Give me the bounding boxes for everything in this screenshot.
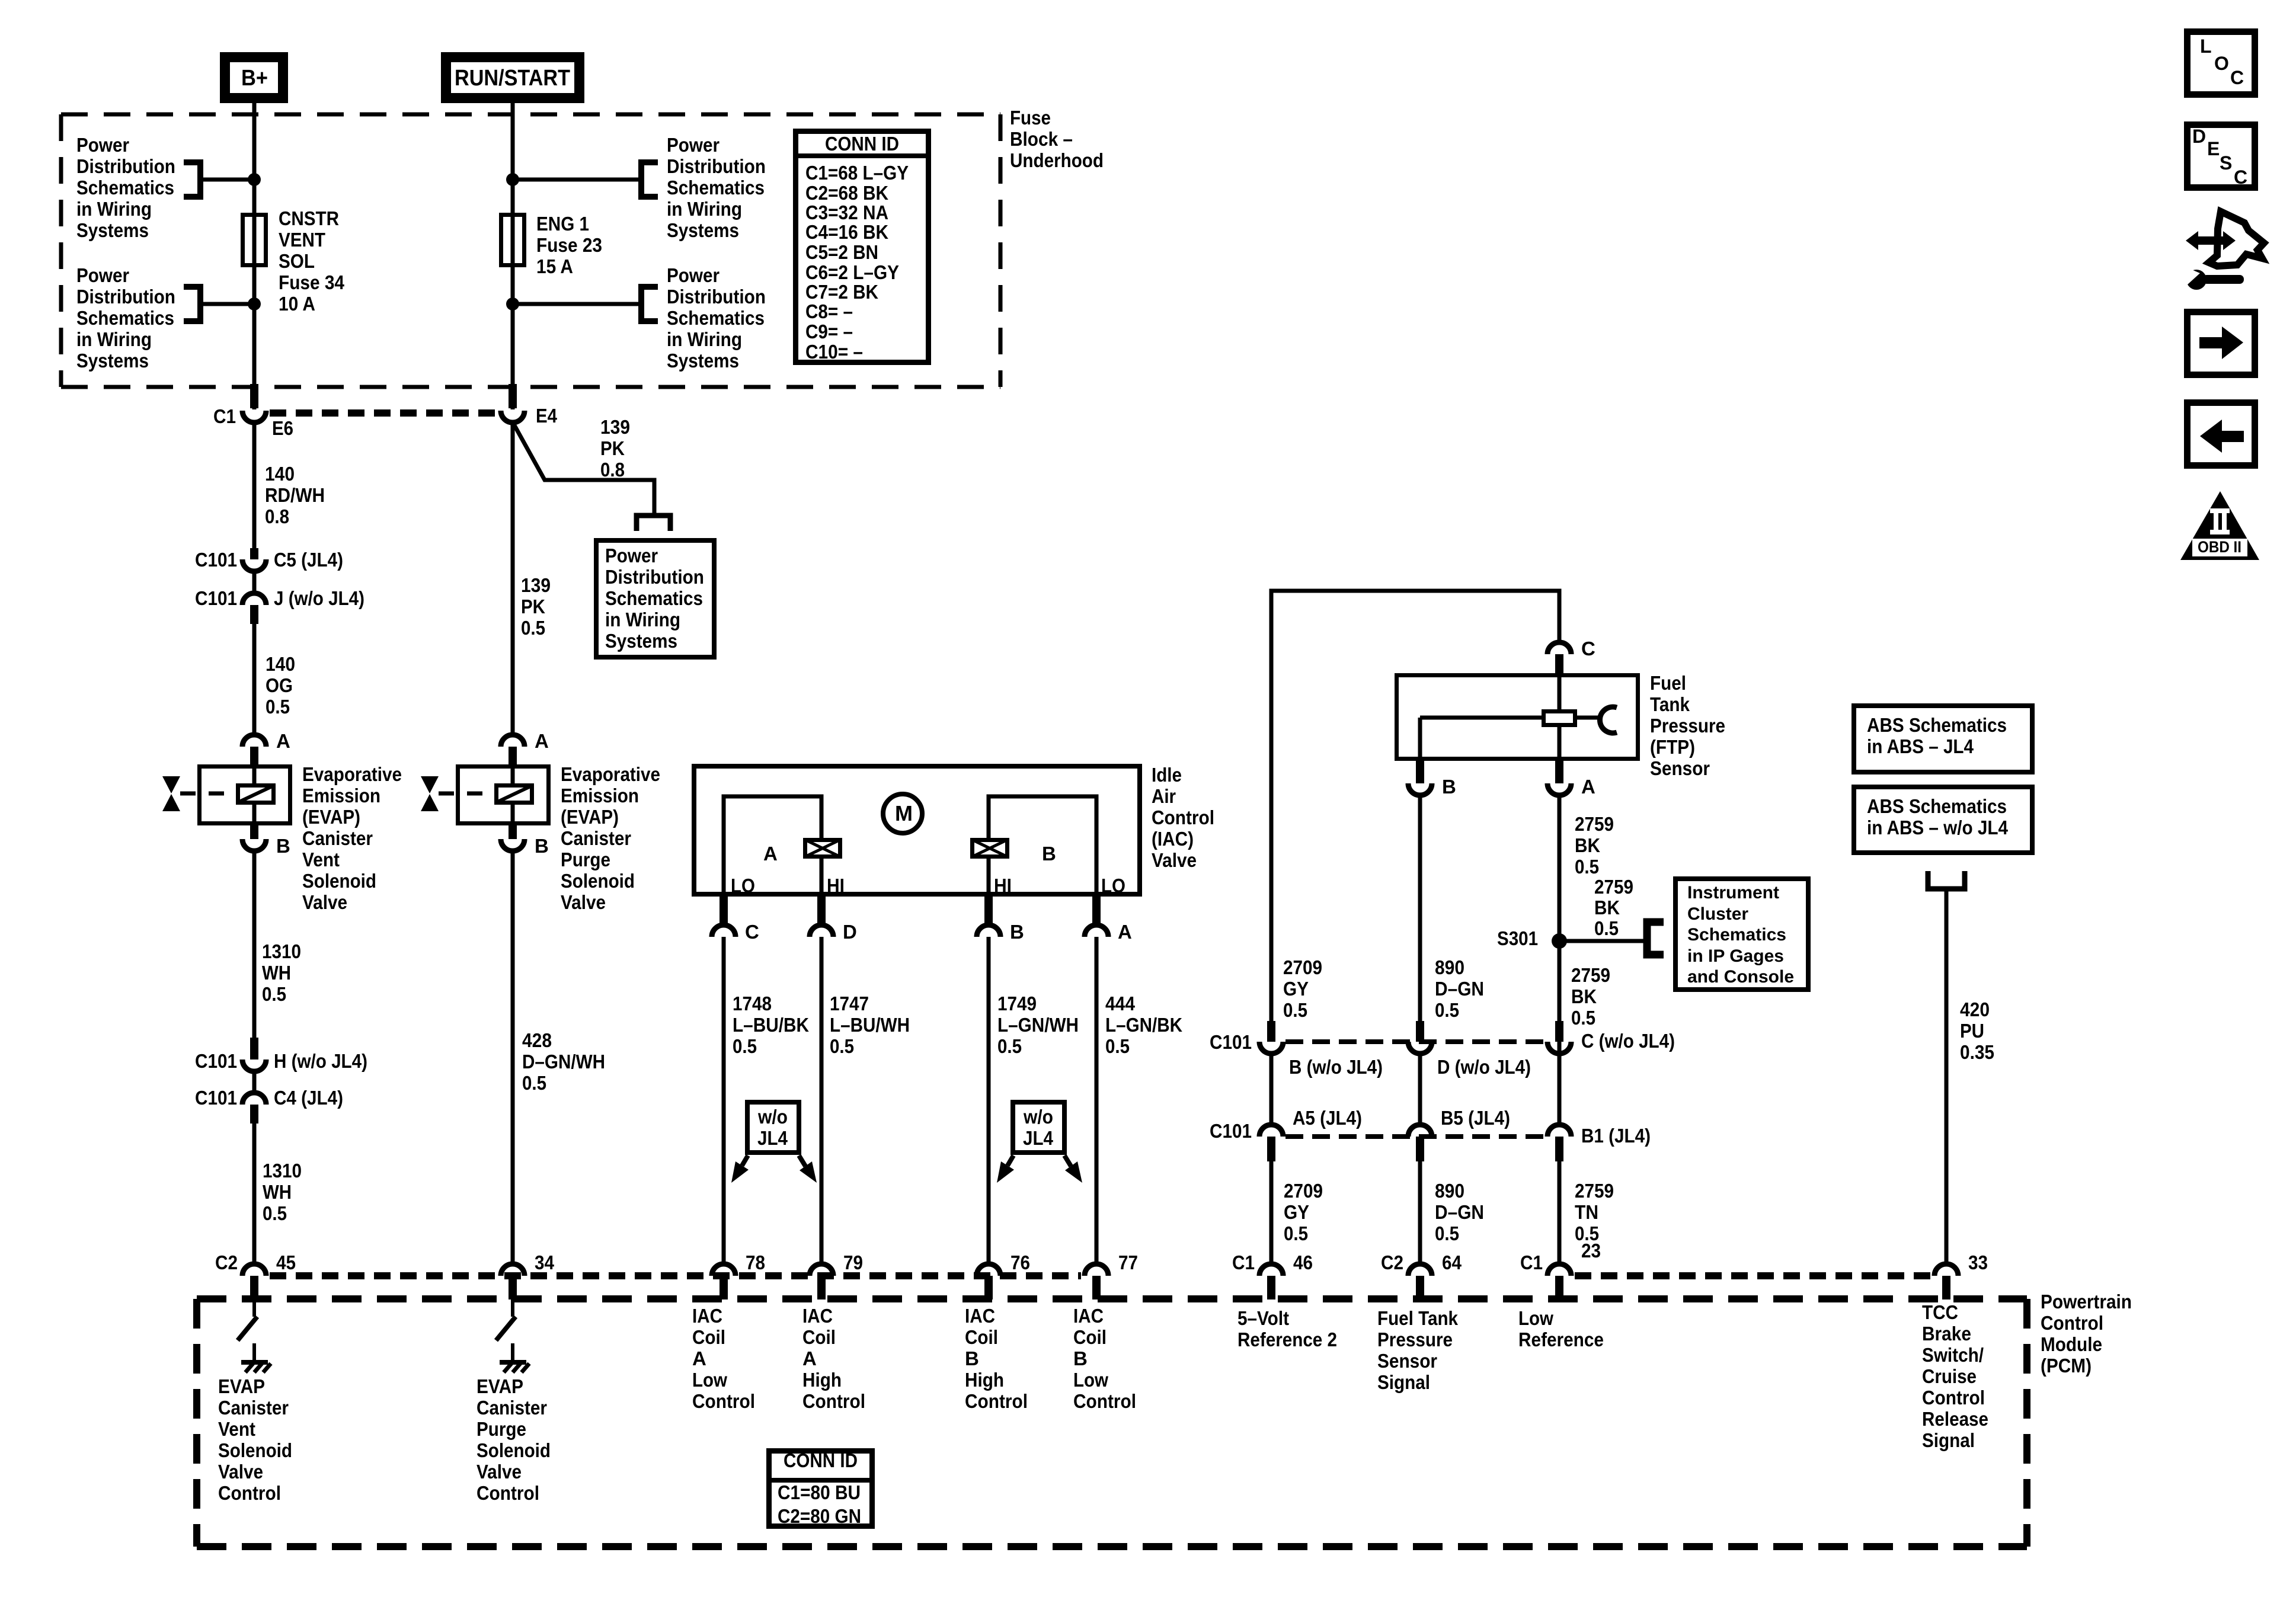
fuse block underhood dashed box [61,114,1000,387]
wire C101 to PCM at x=2631 [1558,1161,1562,1263]
wire branch to lower-left bracket [203,302,254,306]
svg-text:C6=2 L–GY: C6=2 L–GY [805,261,899,283]
svg-text:890: 890 [1435,1180,1464,1202]
svg-text:1748: 1748 [733,993,772,1014]
svg-text:Vent: Vent [302,849,340,870]
svg-text:0.5: 0.5 [521,617,545,639]
label 2709 GY 0.5 lower [1284,1180,1323,1244]
svg-text:78: 78 [746,1251,765,1273]
wire IAC pin C to PCM [722,937,726,1263]
label 1748 L-BU/BK 0.5 [733,993,809,1057]
svg-text:JL4: JL4 [1023,1127,1054,1149]
svg-text:L–BU/BK: L–BU/BK [733,1014,809,1036]
wire S301 to instrument cluster [1559,939,1647,943]
PCM pin 79 [810,1264,833,1299]
label EVAP Canister Purge Solenoid Valve Control [477,1375,551,1504]
connector C101 pin C4 [242,1093,266,1124]
CONN ID table PCM [766,1449,875,1527]
wire 139 PK 0.8 branch [514,424,654,513]
label IAC Coil B Low Control [1073,1305,1136,1412]
connector C101 pin C5 [242,548,266,571]
svg-text:Coil: Coil [1073,1326,1107,1348]
svg-text:B: B [535,835,549,857]
svg-text:Signal: Signal [1377,1371,1430,1393]
svg-text:Valve: Valve [1152,849,1197,871]
label 2759 BK 0.5 branch [1594,876,1633,939]
PCM connector dashed line right [1575,1272,1931,1279]
svg-text:C: C [2230,67,2244,88]
wire IAC pin A to PCM [1095,937,1099,1263]
svg-text:O: O [2214,53,2229,74]
label IAC Coil B High Control [965,1305,1028,1412]
wire through solenoid [252,764,257,783]
label 420 PU 0.35 [1960,998,1994,1063]
svg-text:B (w/o JL4): B (w/o JL4) [1289,1056,1383,1078]
label 1310 WH 0.5 upper [262,940,301,1005]
PCM connector dashed line left [270,1272,1081,1279]
svg-text:Schematics: Schematics [667,177,765,199]
junction dot wire1 lower [248,297,261,311]
svg-text:L: L [2200,36,2212,57]
svg-text:E: E [2207,138,2220,159]
FTP sensor pin C [1547,642,1571,673]
wire between C101 halves [252,571,257,593]
svg-text:Power: Power [76,134,129,156]
label 140 RD/WH 0.8 [265,463,325,527]
arrow w/o JL4 to wire C [731,1156,749,1183]
svg-text:GY: GY [1283,978,1309,1000]
svg-text:C (w/o JL4): C (w/o JL4) [1581,1030,1675,1052]
svg-text:C: C [745,921,759,943]
svg-text:Air: Air [1152,785,1176,807]
svg-text:WH: WH [262,962,291,984]
svg-text:C2=68 BK: C2=68 BK [805,182,888,204]
svg-text:A: A [692,1347,706,1369]
CONN ID table fuse block [793,132,931,363]
svg-text:L–GN/WH: L–GN/WH [997,1014,1079,1036]
svg-text:Fuse: Fuse [1010,107,1051,129]
svg-text:IAC: IAC [1073,1305,1104,1327]
svg-text:Control: Control [1152,806,1214,828]
connector C101 upper pin at x=2631 [1547,1021,1571,1054]
svg-text:Evaporative: Evaporative [302,763,402,785]
svg-text:A5 (JL4): A5 (JL4) [1293,1107,1362,1129]
svg-text:CONN ID: CONN ID [825,133,899,155]
svg-text:B: B [1073,1347,1088,1369]
svg-text:0.5: 0.5 [1571,1007,1595,1029]
svg-text:L–GN/BK: L–GN/BK [1105,1014,1182,1036]
svg-text:0.5: 0.5 [266,696,290,718]
FTP sensor internals [1420,673,1617,761]
svg-text:C5 (JL4): C5 (JL4) [274,549,343,571]
svg-text:0.5: 0.5 [1284,1222,1308,1244]
svg-text:Evaporative: Evaporative [561,763,660,785]
connector C101 upper pin at x=2396 [1408,1021,1432,1054]
svg-text:OG: OG [266,674,293,696]
wire 1310 WH upper segment [252,851,257,1042]
driver switch EVAP vent control [238,1299,271,1372]
svg-text:0.5: 0.5 [1435,1222,1459,1244]
svg-text:High: High [802,1369,842,1391]
svg-text:OBD II: OBD II [2198,538,2241,556]
connector pin B Purge [501,825,525,851]
connector pin A Vent [242,735,266,764]
svg-text:M: M [895,801,913,825]
svg-text:Schematics: Schematics [1687,925,1786,945]
svg-text:EVAP: EVAP [218,1375,265,1397]
connector C1 pin E6 [242,384,266,422]
svg-text:1310: 1310 [263,1160,302,1182]
wire coil B to HI pin [987,859,991,897]
svg-text:Pressure: Pressure [1377,1329,1453,1350]
svg-text:CNSTR: CNSTR [279,207,339,229]
svg-text:Schematics: Schematics [667,307,765,329]
svg-text:C7=2 BK: C7=2 BK [805,281,878,303]
svg-text:L–BU/WH: L–BU/WH [830,1014,910,1036]
label 139 PK 0.5 [521,574,551,639]
svg-text:J (w/o JL4): J (w/o JL4) [274,587,364,609]
arrow w/o JL4 to wire B [997,1156,1014,1183]
svg-text:A: A [535,730,549,752]
svg-text:Control: Control [802,1390,865,1412]
label 1747 L-BU/WH 0.5 [830,993,910,1057]
wire 140 OG segment [252,624,257,735]
svg-text:1310: 1310 [262,940,301,962]
svg-text:ABS Schematics: ABS Schematics [1867,795,2007,817]
svg-text:5–Volt: 5–Volt [1237,1307,1289,1329]
label power distribution schematics box [605,545,704,652]
svg-text:2759: 2759 [1571,964,1610,986]
svg-text:79: 79 [843,1251,863,1273]
wire 139 PK segment [511,422,515,735]
svg-text:Underhood: Underhood [1010,149,1104,171]
label Low Reference [1518,1307,1604,1350]
wire branch to lower-right bracket [513,302,641,306]
label Evaporative Emission (EVAP) Canister Purge Solenoid Valve [561,763,660,913]
fuse F23 ENG 1 [501,215,525,265]
svg-text:10 A: 10 A [279,293,315,315]
connector C101 lower pin at x=2396 [1408,1125,1432,1161]
icon wrench [2183,266,2244,290]
svg-text:C101: C101 [195,1087,237,1109]
svg-text:B+: B+ [241,66,268,91]
svg-text:ENG 1: ENG 1 [536,213,589,235]
svg-text:0.5: 0.5 [1575,856,1599,878]
svg-text:Distribution: Distribution [667,286,766,308]
svg-text:0.5: 0.5 [830,1035,854,1057]
svg-text:0.5: 0.5 [1283,999,1307,1021]
svg-text:77: 77 [1118,1251,1138,1273]
svg-text:and Console: and Console [1687,967,1794,987]
svg-text:C4=16 BK: C4=16 BK [805,221,888,243]
power terminal RUN/START [446,57,580,98]
svg-text:in ABS – w/o JL4: in ABS – w/o JL4 [1867,817,2009,838]
svg-text:Low: Low [1518,1307,1553,1329]
valve bowtie symbol [162,776,180,811]
svg-text:64: 64 [1442,1251,1462,1273]
svg-text:(IAC): (IAC) [1152,828,1194,850]
svg-text:140: 140 [265,463,295,485]
svg-text:Fuel: Fuel [1650,672,1686,694]
svg-text:C3=32 NA: C3=32 NA [805,201,888,223]
wire 1310 WH lower segment [252,1124,257,1263]
svg-text:CONN ID: CONN ID [784,1449,858,1471]
svg-text:0.5: 0.5 [263,1202,287,1224]
wire IAC pin D to PCM [820,937,824,1263]
svg-text:Release: Release [1922,1408,1988,1430]
svg-text:2759: 2759 [1575,1180,1614,1202]
svg-text:Reference: Reference [1518,1329,1604,1350]
svg-text:Low: Low [1073,1369,1108,1391]
svg-text:Low: Low [692,1369,727,1391]
svg-text:S301: S301 [1497,927,1538,949]
wire C101 to PCM at x=2396 [1418,1161,1422,1263]
icon LOC box [2188,32,2255,95]
wire between C101 rows at x=2631 [1558,1054,1562,1126]
svg-text:Block –: Block – [1010,128,1073,150]
IAC valve pin A [1085,897,1108,937]
svg-text:139: 139 [521,574,551,596]
svg-text:C: C [1581,638,1595,660]
svg-text:Fuel Tank: Fuel Tank [1377,1307,1459,1329]
label fuse 34 [279,207,345,315]
svg-text:420: 420 [1960,998,1990,1020]
ABS schematics w/o JL4 box [1854,787,2032,853]
svg-text:B5 (JL4): B5 (JL4) [1441,1107,1510,1129]
svg-text:ABS Schematics: ABS Schematics [1867,714,2007,736]
IAC coil A symbol [805,840,840,857]
arrow w/o JL4 to wire A [1064,1156,1082,1183]
bracket below ABS boxes [1928,871,1965,889]
FTP sensor pin A [1547,761,1571,795]
svg-text:C1: C1 [1232,1251,1255,1273]
ground EVAP vent driver [0,0,1,1]
wire 420 PU segment [1945,889,1949,1263]
svg-text:in Wiring: in Wiring [667,198,742,220]
svg-text:Sensor: Sensor [1377,1350,1437,1372]
label 5-Volt Reference 2 [1237,1307,1337,1350]
svg-text:76: 76 [1011,1251,1030,1273]
svg-text:RD/WH: RD/WH [265,484,325,506]
svg-text:C2=80 GN: C2=80 GN [778,1505,861,1527]
label 2759 BK 0.5 upper [1575,813,1614,878]
svg-text:428: 428 [522,1029,552,1051]
svg-text:WH: WH [263,1181,292,1203]
svg-text:Cruise: Cruise [1922,1365,1977,1387]
svg-text:Systems: Systems [667,219,739,241]
connector C101 lower pin at x=2145 [1259,1125,1283,1161]
svg-text:B: B [1442,776,1456,798]
svg-text:EVAP: EVAP [477,1375,523,1397]
svg-text:2759: 2759 [1594,876,1633,898]
svg-text:0.8: 0.8 [265,505,289,527]
svg-text:LO: LO [1101,875,1125,897]
svg-text:890: 890 [1435,956,1464,978]
svg-text:0.5: 0.5 [522,1072,546,1094]
svg-text:Distribution: Distribution [605,566,704,588]
svg-text:Power: Power [605,545,658,566]
svg-text:in Wiring: in Wiring [76,198,152,220]
IAC valve pin B [977,897,1000,937]
svg-text:JL4: JL4 [757,1127,788,1149]
svg-text:Module: Module [2041,1333,2102,1355]
svg-text:(EVAP): (EVAP) [302,806,360,828]
ABS schematics JL4 box [1854,706,2032,772]
svg-text:C101: C101 [195,549,237,571]
connector dashed line C1-E4 [270,409,497,417]
svg-text:C1=68 L–GY: C1=68 L–GY [805,162,909,184]
PCM pin 34 [501,1264,525,1299]
instrument cluster schematics box [1675,879,1808,990]
label 2759 TN 0.5 [1575,1180,1614,1244]
junction dot wire1 upper [248,173,261,186]
svg-text:IAC: IAC [802,1305,833,1327]
option box w/o JL4 coil B [1013,1102,1064,1153]
bracket instrument cluster [1647,922,1664,955]
svg-text:E6: E6 [272,417,293,439]
svg-text:Canister: Canister [561,827,631,849]
svg-text:(PCM): (PCM) [2041,1355,2092,1377]
svg-text:C101: C101 [1210,1120,1252,1142]
wire 890 D-GN segment [1418,795,1422,1022]
svg-text:Coil: Coil [965,1326,998,1348]
svg-text:w/o: w/o [1023,1106,1053,1128]
PCM pin 76 [977,1264,1000,1299]
connector C101 row JL4 dashed line [1285,1134,1545,1139]
label 890 D-GN 0.5 upper [1435,956,1484,1021]
power terminal B+ [225,57,283,98]
IAC motor M [883,794,922,833]
dashed actuator link [439,792,494,796]
label IAC Coil A High Control [802,1305,865,1412]
PCM pin 33 [1934,1264,1958,1299]
svg-text:C1: C1 [213,405,236,427]
svg-text:PK: PK [600,437,625,459]
svg-text:C1=80 BU: C1=80 BU [778,1481,861,1503]
valve bowtie symbol [421,776,439,811]
wire between C101 halves lower [252,1071,257,1094]
svg-text:0.5: 0.5 [262,983,286,1005]
icon double arrow [2186,231,2236,250]
svg-text:0.5: 0.5 [1594,917,1619,939]
svg-text:Emission: Emission [561,785,639,806]
svg-text:D: D [2192,126,2206,147]
label EVAP Canister Vent Solenoid Valve Control [218,1375,292,1504]
svg-text:BK: BK [1594,897,1620,918]
IAC coil A inner wiring [724,796,821,897]
svg-text:Canister: Canister [477,1397,547,1419]
svg-text:Canister: Canister [218,1397,289,1419]
label 2759 BK 0.5 lower [1571,964,1610,1029]
svg-text:140: 140 [266,653,295,675]
label 2709 GY 0.5 upper [1283,956,1322,1021]
svg-text:0.5: 0.5 [997,1035,1022,1057]
svg-text:Systems: Systems [667,350,739,372]
svg-text:Systems: Systems [76,219,149,241]
svg-text:A: A [1118,921,1132,943]
svg-text:w/o: w/o [757,1106,788,1128]
label 444 L-GN/BK 0.5 [1105,993,1182,1057]
icon right arrow box [2188,312,2255,375]
label Fuse Block - Underhood [1010,107,1104,171]
svg-text:Powertrain: Powertrain [2041,1291,2132,1313]
PCM pin 78 [712,1264,736,1299]
svg-text:A: A [763,843,778,865]
bracket above power distribution box [637,516,670,531]
svg-text:Control: Control [218,1482,281,1504]
wire between C101 rows at x=2396 [1418,1054,1422,1126]
svg-text:B: B [965,1347,979,1369]
label 1749 L-GN/WH 0.5 [997,993,1079,1057]
svg-text:2709: 2709 [1283,956,1322,978]
svg-text:IAC: IAC [965,1305,995,1327]
FTP sensor pin B [1408,761,1432,795]
IAC valve pin D [810,897,833,937]
svg-text:C4 (JL4): C4 (JL4) [274,1087,343,1109]
label 428 D-GN/WH 0.5 [522,1029,605,1094]
svg-text:IAC: IAC [692,1305,722,1327]
svg-text:C9= –: C9= – [805,321,853,343]
fuel tank pressure sensor box [1397,676,1638,759]
connector C101 pin H [242,1038,266,1071]
wire through solenoid [511,764,515,783]
label 890 D-GN 0.5 lower [1435,1180,1484,1244]
svg-text:Control: Control [692,1390,755,1412]
splice S301 [1552,933,1567,949]
svg-text:D–GN: D–GN [1435,978,1484,1000]
label Evaporative Emission (EVAP) Canister Vent Solenoid Valve [302,763,402,913]
svg-text:A: A [276,730,290,752]
wire 140 RD/WH segment [252,422,257,552]
svg-text:0.35: 0.35 [1960,1041,1994,1063]
bracket lower-right [641,287,658,321]
svg-text:Vent: Vent [218,1418,255,1440]
EVAP solenoid valve box [200,767,290,824]
arrow w/o JL4 to wire D [799,1156,817,1183]
svg-text:(EVAP): (EVAP) [561,806,619,828]
svg-text:0.5: 0.5 [1435,999,1459,1021]
svg-text:C10= –: C10= – [805,341,863,363]
wire 5V reference top run [1271,591,1559,1022]
svg-text:Solenoid: Solenoid [218,1439,292,1461]
svg-text:in IP Gages: in IP Gages [1687,946,1784,966]
svg-text:E4: E4 [536,405,558,427]
svg-text:(FTP): (FTP) [1650,736,1695,758]
svg-text:23: 23 [1581,1240,1601,1262]
PCM pin 77 [1085,1264,1108,1299]
svg-text:in ABS – JL4: in ABS – JL4 [1867,735,1974,757]
svg-text:Coil: Coil [692,1326,725,1348]
wire branch to upper-left bracket [203,178,254,182]
label Idle Air Control (IAC) Valve [1152,764,1214,871]
svg-text:C101: C101 [195,1050,237,1072]
icon left arrow box [2188,403,2255,466]
connector C101 lower pin at x=2631 [1547,1125,1571,1161]
icon OBD II triangle [2180,491,2259,560]
svg-text:Power: Power [667,264,720,286]
svg-text:BK: BK [1575,834,1600,856]
svg-text:Distribution: Distribution [76,155,175,177]
svg-text:PU: PU [1960,1020,1984,1042]
wire C101 to PCM at x=2145 [1269,1161,1274,1263]
svg-text:2759: 2759 [1575,813,1614,835]
solenoid coil [238,786,274,803]
PCM pin 64 [1408,1264,1432,1299]
svg-text:Tank: Tank [1650,693,1690,715]
solenoid coil [497,786,532,803]
svg-text:Valve: Valve [477,1461,522,1483]
svg-text:Solenoid: Solenoid [302,870,376,892]
